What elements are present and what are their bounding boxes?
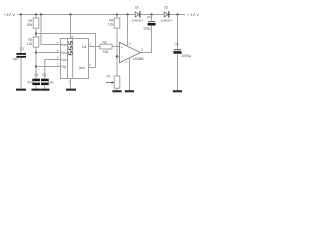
IC 555 timer U1 — [61, 39, 89, 79]
diode D2 — [160, 6, 172, 23]
wire R1-R2 — [35, 28, 37, 37]
svg-text:Thres: Thres — [61, 51, 67, 55]
node junction R3-R4 input — [116, 46, 117, 47]
node junction inverting input — [116, 55, 118, 57]
wire opamp gnd pin4 — [129, 58, 131, 90]
wire C1 bottom lead — [20, 58, 22, 89]
wire C1 top lead — [20, 15, 22, 54]
svg-text:Disch: Disch — [79, 66, 85, 70]
node junction rail-C4 — [150, 13, 152, 15]
svg-text:Out: Out — [82, 45, 87, 49]
wire out to R3 — [89, 46, 101, 48]
op-amp U2 LM386 — [120, 42, 144, 62]
svg-text:47n: 47n — [28, 81, 34, 85]
svg-text:C5: C5 — [175, 42, 179, 46]
svg-text:1000µ: 1000µ — [181, 54, 191, 58]
ground under C2 — [32, 89, 41, 91]
svg-text:D2: D2 — [164, 6, 168, 10]
node junction R1-R2-disch — [35, 32, 37, 34]
svg-text:P1: P1 — [107, 75, 111, 79]
resistor R3 — [100, 40, 112, 53]
capacitor C5 — [173, 42, 191, 57]
resistor R1 — [27, 18, 39, 28]
wire R4 top lead — [116, 15, 118, 19]
ground under opamp — [125, 90, 134, 92]
svg-text:10k: 10k — [103, 50, 109, 54]
ground under P1 — [112, 90, 121, 92]
wire inv input stub — [117, 56, 120, 58]
capacitor C1 — [13, 47, 26, 61]
svg-text:+: + — [121, 45, 123, 49]
svg-text:C3: C3 — [42, 73, 46, 77]
svg-text:Trig: Trig — [61, 65, 66, 69]
resistor R4 — [108, 18, 120, 28]
wire C2 bottom lead — [35, 85, 37, 89]
svg-text:12k: 12k — [108, 23, 114, 27]
svg-text:4µ7: 4µ7 — [13, 57, 20, 61]
wire C3 bottom lead — [44, 85, 46, 89]
wire contr to C3 — [45, 60, 61, 79]
wire P1 bottom lead — [116, 88, 118, 90]
wire C5 top lead — [177, 15, 179, 50]
wire top supply rail — [18, 14, 186, 16]
svg-text:+ 12 V: + 12 V — [187, 12, 199, 17]
capacitor C4 — [143, 15, 156, 30]
svg-text:C2: C2 — [34, 73, 38, 77]
svg-text:100µ: 100µ — [143, 26, 151, 30]
ground under C5 — [173, 90, 182, 92]
node junction rail-R4 — [116, 13, 118, 15]
potentiometer P1 — [106, 75, 120, 89]
svg-text:C4: C4 — [147, 15, 151, 19]
ground under 555 — [66, 89, 76, 91]
ground under C1 — [16, 89, 26, 91]
wire R3 to opamp — [112, 46, 120, 48]
wire C5 bottom lead — [177, 54, 179, 90]
capacitor C2 — [28, 73, 41, 85]
node junction rail-C1 — [20, 13, 22, 15]
ground under C3 — [41, 89, 50, 91]
node junction rail-reset — [40, 13, 42, 15]
wire opamp supply pin6 — [127, 15, 129, 47]
diode D1 — [131, 6, 143, 23]
wire disch to R1R2 junction — [36, 34, 96, 68]
node junction rail-pin8 — [69, 13, 71, 15]
node junction thres — [35, 51, 37, 53]
wire thres — [36, 52, 61, 54]
wire gnd pin1 — [70, 79, 72, 89]
svg-text:−: − — [121, 55, 123, 59]
wire R4 down to pot — [116, 28, 118, 76]
node junction rail-C5 — [176, 13, 178, 15]
wire reset — [41, 15, 61, 45]
svg-text:12k: 12k — [27, 42, 33, 46]
svg-text:Reset: Reset — [61, 43, 67, 47]
svg-text:555: 555 — [68, 41, 74, 56]
wire opamp output to C4 — [141, 25, 152, 52]
svg-text:82k: 82k — [27, 23, 33, 27]
svg-text:Contr: Contr — [61, 58, 67, 62]
svg-text:1N4007: 1N4007 — [160, 18, 172, 22]
wire R1 top lead — [35, 15, 37, 19]
svg-text:LM386: LM386 — [133, 57, 144, 61]
wire Vcc pin8 — [70, 15, 72, 39]
wire trig — [36, 66, 61, 68]
svg-text:D1: D1 — [135, 6, 139, 10]
svg-text:C1: C1 — [20, 47, 24, 51]
node junction rail-R1 — [35, 13, 37, 15]
resistor R2 — [27, 37, 39, 47]
svg-text:+12 V: +12 V — [4, 12, 16, 17]
svg-text:1N4007: 1N4007 — [131, 18, 143, 22]
node junction rail-pin6 — [126, 13, 128, 15]
wire R2 to C2 — [35, 47, 37, 78]
capacitor C3 — [41, 73, 54, 85]
svg-text:10n: 10n — [48, 81, 54, 85]
svg-text:R3: R3 — [103, 40, 107, 44]
wire C4 top lead — [151, 15, 153, 22]
node junction trig — [35, 65, 37, 67]
